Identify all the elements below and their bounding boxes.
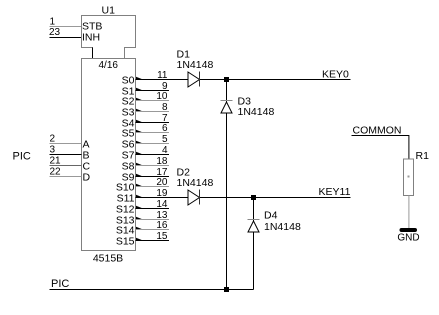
svg-text:3: 3: [50, 145, 56, 156]
wire S13 stub: [136, 219, 170, 221]
junction D3 column to PIC rail: [224, 287, 229, 292]
svg-text:PIC: PIC: [13, 151, 31, 163]
svg-text:1: 1: [50, 17, 56, 28]
pin S6 output marker: [136, 141, 143, 144]
wire S7 stub: [136, 154, 170, 156]
svg-text:KEY0: KEY0: [322, 69, 349, 81]
svg-text:21: 21: [50, 156, 62, 167]
svg-text:4515B: 4515B: [93, 253, 123, 265]
diode D2: [136, 190, 254, 206]
diode D4: [248, 220, 260, 233]
junction at D1 output / D3: [224, 77, 229, 82]
decoder U1 body 4/16: [82, 59, 136, 251]
wire input C: [50, 165, 82, 167]
R1 value mark: [408, 176, 410, 178]
pin S2 output marker: [136, 98, 143, 101]
svg-text:2: 2: [50, 134, 56, 145]
svg-text:COMMON: COMMON: [353, 125, 402, 137]
svg-text:6: 6: [162, 123, 168, 134]
pin S8 output marker: [136, 163, 143, 166]
wire COMMON: [352, 136, 409, 160]
wire KEY0: [227, 79, 351, 81]
diode D1: [136, 72, 227, 88]
svg-text:18: 18: [156, 156, 168, 167]
pin S14 output marker: [136, 227, 143, 230]
wire STB pin1: [50, 26, 82, 28]
wire D4 column: [253, 198, 255, 290]
svg-text:23: 23: [49, 27, 61, 38]
pin S1 output marker: [136, 88, 143, 91]
svg-text:16: 16: [156, 220, 168, 231]
wire S1 stub: [136, 90, 170, 92]
svg-text:R1: R1: [416, 150, 430, 162]
diode D3: [221, 101, 233, 114]
pin S12 output marker: [136, 206, 143, 209]
pin S7 output marker: [136, 152, 143, 155]
svg-text:8: 8: [162, 102, 168, 113]
resistor R1: [404, 159, 414, 196]
pin S0 output marker: [136, 77, 143, 80]
wire input B: [50, 154, 82, 156]
svg-text:20: 20: [156, 177, 168, 188]
svg-text:4: 4: [162, 145, 168, 156]
wire INH pin23: [50, 37, 82, 39]
wire D3 column: [226, 80, 228, 290]
svg-text:U1: U1: [102, 5, 116, 17]
wire S2 stub: [136, 100, 170, 102]
ground: [400, 228, 418, 232]
wire S12 stub: [136, 208, 170, 210]
svg-text:1N4148: 1N4148: [264, 221, 301, 233]
wire input D: [50, 176, 82, 178]
wire S8 stub: [136, 165, 170, 167]
wire PIC bottom rail: [50, 289, 254, 291]
wire input A: [50, 143, 82, 145]
svg-text:15: 15: [156, 231, 168, 242]
svg-text:10: 10: [156, 91, 168, 102]
pin S3 output marker: [136, 109, 143, 112]
svg-text:D4: D4: [264, 210, 278, 222]
strobe/inhibit block of U1: [82, 16, 136, 59]
wire S3 stub: [136, 111, 170, 113]
svg-text:1N4148: 1N4148: [177, 177, 214, 189]
svg-text:4/16: 4/16: [99, 60, 119, 71]
svg-text:GND: GND: [397, 233, 419, 244]
wire S6 stub: [136, 143, 170, 145]
wire S15 stub: [136, 240, 170, 242]
svg-text:22: 22: [50, 167, 62, 178]
svg-text:S15: S15: [116, 236, 135, 248]
wire S5 stub: [136, 132, 170, 134]
svg-text:PIC: PIC: [51, 278, 69, 290]
svg-text:14: 14: [156, 199, 168, 210]
svg-text:KEY11: KEY11: [319, 186, 351, 198]
wire R1 to GND: [408, 196, 410, 230]
outputs S0..S15: [116, 70, 169, 248]
junction at D2 output / D4: [251, 195, 256, 200]
wire S9 stub: [136, 176, 170, 178]
pin S10 output marker: [136, 184, 143, 187]
wire S14 stub: [136, 229, 170, 231]
wire S4 stub: [136, 122, 170, 124]
svg-text:1N4148: 1N4148: [177, 59, 214, 71]
svg-text:5: 5: [162, 134, 168, 145]
pin S15 output marker: [136, 238, 143, 241]
pin S4 output marker: [136, 120, 143, 123]
wire KEY11: [254, 197, 351, 199]
wire leg STB block to decoder: [92, 48, 94, 59]
pin S5 output marker: [136, 130, 143, 133]
svg-text:D: D: [83, 172, 91, 184]
svg-text:1N4148: 1N4148: [238, 106, 275, 118]
svg-text:INH: INH: [82, 32, 100, 44]
wire S10 stub: [136, 186, 170, 188]
pin S9 output marker: [136, 174, 143, 177]
pin S11 output marker: [136, 195, 143, 198]
pin S13 output marker: [136, 217, 143, 220]
